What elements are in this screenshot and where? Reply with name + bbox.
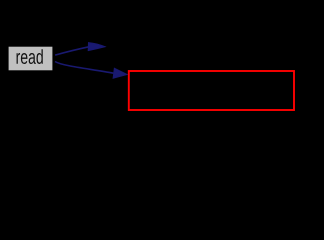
- node read (grey box): [9, 47, 53, 71]
- edge to upper node: arrowhead: [88, 43, 105, 51]
- edge to red node: arrowhead: [113, 68, 128, 79]
- truncated node (red box): [129, 71, 294, 110]
- edge to upper node: wire: [55, 47, 89, 55]
- edge to red node: wire: [55, 62, 114, 74]
- node read label: [17, 49, 43, 64]
